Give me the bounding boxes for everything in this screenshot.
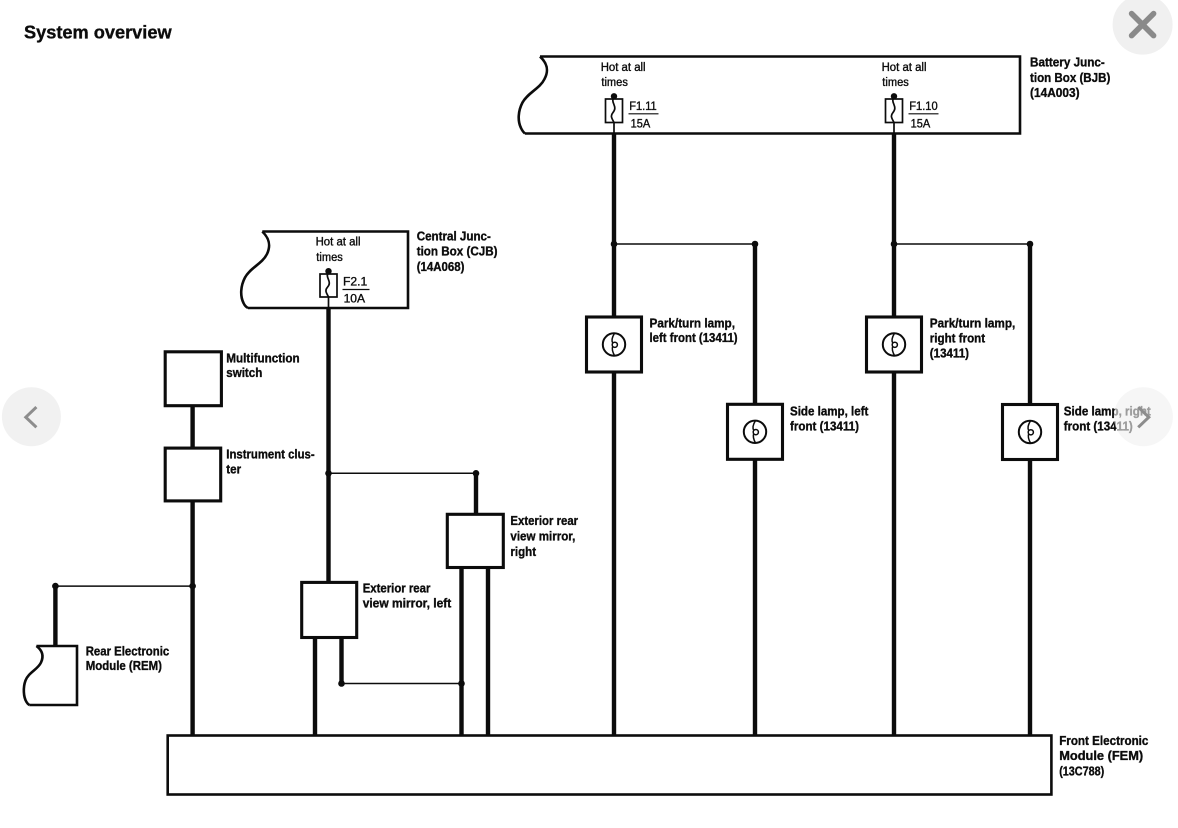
wire side lamp right to FEM [1028, 459, 1032, 736]
svg-text:right front: right front [930, 330, 986, 345]
svg-text:(14A003): (14A003) [1030, 85, 1080, 100]
svg-text:times: times [882, 77, 909, 89]
wire side lamp left to FEM [753, 459, 757, 736]
svg-text:15A: 15A [631, 116, 651, 130]
label side lamp left front [790, 404, 869, 434]
svg-text:tion Box (BJB): tion Box (BJB) [1030, 70, 1110, 85]
junction node 1 [611, 241, 618, 248]
label Rear Electronic Module [86, 643, 170, 673]
wire link left lamps [614, 243, 755, 245]
CJB torn left edge [241, 232, 269, 309]
label park/turn lamp right front [930, 315, 1016, 360]
svg-text:Battery Junc-: Battery Junc- [1030, 55, 1105, 70]
wire BJB F1.11 to park/turn lamp left [612, 134, 616, 318]
svg-text:Instrument clus-: Instrument clus- [226, 447, 314, 462]
wire link mirror left to mirror right wire [342, 683, 462, 685]
svg-text:F1.10: F1.10 [909, 99, 938, 113]
wire junction to side lamp right [1028, 244, 1032, 405]
wire BJB F1.10 to park/turn lamp right [892, 134, 896, 318]
label exterior rear view mirror left [363, 580, 452, 610]
wire CJB F2.1 to mirror left [326, 308, 330, 583]
fuse F1.10 15A [886, 93, 939, 133]
side lamp right front 13411 [1003, 405, 1058, 460]
svg-text:Hot at all: Hot at all [882, 62, 927, 74]
wire link right lamps [894, 243, 1030, 245]
junction node 7 [52, 583, 59, 590]
svg-text:view mirror,: view mirror, [510, 529, 575, 544]
wire park/turn lamp left to FEM [612, 372, 616, 737]
svg-text:Park/turn lamp,: Park/turn lamp, [650, 315, 736, 330]
wire junction to REM [53, 586, 57, 646]
wire mirror left to FEM [313, 637, 317, 736]
svg-text:ter: ter [226, 462, 241, 477]
svg-text:(13411): (13411) [930, 345, 969, 360]
label Central Junction Box (14A068) [417, 229, 498, 274]
wire link REM to instrument cluster wire [55, 585, 192, 587]
junction node 5 [325, 470, 332, 477]
fuse F1.11 15A [606, 93, 659, 133]
junction node 4 [1027, 241, 1034, 248]
label Hot at all times (F1.10) [882, 62, 927, 89]
label Hot at all times (F1.11) [601, 62, 646, 89]
wire multifunction switch to instrument cluster [190, 406, 194, 449]
junction box BJB (Battery Junction Box 14A003) [525, 57, 1020, 134]
wire junction to side lamp left [753, 244, 757, 405]
svg-text:left front (13411): left front (13411) [650, 330, 738, 345]
exterior rear view mirror left [302, 582, 357, 637]
park/turn lamp right front 13411 [867, 317, 922, 372]
svg-text:Multifunction: Multifunction [226, 350, 299, 365]
side lamp left front 13411 [728, 404, 783, 459]
wire link CJB wire to mirror right [329, 472, 477, 474]
instrument cluster [165, 448, 221, 501]
svg-text:15A: 15A [911, 116, 931, 130]
svg-text:Exterior rear: Exterior rear [510, 513, 578, 528]
svg-text:switch: switch [226, 365, 262, 380]
junction node 3 [891, 241, 898, 248]
BJB torn left edge [519, 57, 547, 134]
svg-text:F1.11: F1.11 [629, 99, 657, 113]
label exterior rear view mirror right [510, 513, 578, 559]
svg-text:Front Electronic: Front Electronic [1059, 733, 1148, 748]
exterior rear view mirror right [447, 514, 503, 567]
junction node 2 [752, 241, 759, 248]
svg-text:System overview: System overview [24, 22, 173, 42]
wire mirror right pin1 to FEM [459, 567, 463, 736]
label Hot at all times (F2.1) [316, 237, 361, 264]
svg-text:Side lamp, left: Side lamp, left [790, 404, 869, 419]
close button [1113, 0, 1173, 55]
svg-text:right: right [510, 544, 536, 559]
junction box CJB (Central Junction Box 14A068) [248, 232, 408, 309]
junction node 9 [338, 680, 345, 687]
nav arrow left [2, 387, 61, 446]
label Front Electronic Module [1059, 733, 1148, 778]
svg-text:times: times [601, 77, 628, 89]
label instrument cluster [226, 447, 314, 477]
svg-text:Exterior rear: Exterior rear [363, 580, 431, 595]
svg-text:(13C788): (13C788) [1059, 763, 1104, 778]
wire junction to mirror right [474, 473, 478, 514]
svg-text:view mirror, left: view mirror, left [363, 596, 452, 611]
park/turn lamp left front 13411 [587, 317, 642, 372]
svg-text:Module (REM): Module (REM) [86, 658, 162, 673]
label side lamp right front [1064, 403, 1152, 433]
svg-text:(14A068): (14A068) [417, 259, 465, 274]
wire mirror right pin2 to FEM [486, 567, 490, 736]
junction node 8 [189, 583, 196, 590]
svg-text:front (13411): front (13411) [790, 419, 859, 434]
svg-text:Rear Electronic: Rear Electronic [86, 643, 170, 658]
junction node 10 [458, 680, 465, 687]
wire park/turn lamp right to FEM [892, 372, 896, 737]
svg-text:Central Junc-: Central Junc- [417, 229, 491, 244]
nav arrow right [1114, 387, 1173, 446]
svg-text:Hot at all: Hot at all [601, 62, 646, 74]
label park/turn lamp left front [650, 315, 738, 345]
REM torn left edge [24, 646, 43, 705]
label Battery Junction Box (14A003) [1030, 55, 1110, 100]
fuse F2.1 10A [320, 268, 370, 308]
label multifunction switch [226, 350, 299, 380]
svg-text:10A: 10A [344, 291, 366, 305]
svg-text:tion Box (CJB): tion Box (CJB) [417, 244, 498, 259]
svg-text:times: times [316, 252, 343, 264]
junction node 6 [473, 470, 480, 477]
wire instrument cluster to FEM [190, 501, 194, 737]
svg-text:Module (FEM): Module (FEM) [1059, 748, 1143, 763]
module FEM (Front Electronic Module 13C788) [168, 736, 1052, 795]
svg-text:Hot at all: Hot at all [316, 237, 361, 249]
multifunction switch [165, 352, 221, 406]
svg-text:Park/turn lamp,: Park/turn lamp, [930, 315, 1016, 330]
wire mirror left pin2 down [339, 637, 343, 684]
module REM (Rear Electronic Module) [29, 646, 77, 705]
svg-text:F2.1: F2.1 [343, 275, 368, 289]
